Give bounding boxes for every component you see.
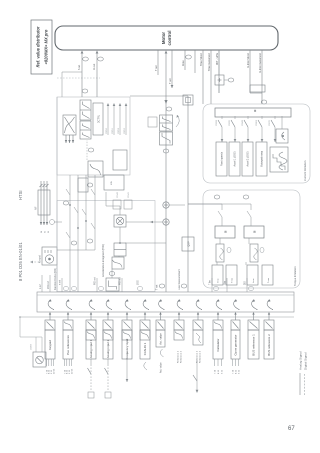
torque glyph box <box>250 244 258 262</box>
selection bar <box>215 108 291 117</box>
svg-text:CAN-IN 1: CAN-IN 1 <box>143 342 147 355</box>
svg-text:Analog input 1: Analog input 1 <box>89 339 93 358</box>
svg-text:Digital Signal: Digital Signal <box>304 352 308 370</box>
ramp block lower <box>88 161 103 177</box>
torque bar <box>215 226 235 238</box>
svg-text:8 21: 8 21 <box>218 369 220 374</box>
svg-text:⊞: ⊞ <box>253 109 257 112</box>
svg-text:DCTRL: DCTRL <box>98 114 101 123</box>
torque bar <box>244 226 264 238</box>
keypad icon <box>42 247 57 265</box>
svg-text:M/T - U/Ta: M/T - U/Ta <box>215 52 219 65</box>
pc wiring <box>106 192 166 278</box>
input block Analog input 1 <box>86 320 96 359</box>
svg-text:Reference 2: Reference 2 <box>180 350 183 363</box>
S-ramp box <box>270 147 288 172</box>
svg-text:PID act: PID act <box>119 277 122 285</box>
svg-text:U-limit Motor: U-limit Motor <box>246 53 250 68</box>
bar line Imax <box>184 50 186 70</box>
svg-text:T act: T act <box>168 78 172 84</box>
svg-text:8 P01 D26 EN-01/01: 8 P01 D26 EN-01/01 <box>18 242 23 281</box>
input block Par. references <box>63 320 73 359</box>
selector arc <box>89 300 94 310</box>
small block above <box>78 178 88 192</box>
svg-text:⊞: ⊞ <box>224 230 228 233</box>
svg-text:PID set: PID set <box>94 277 97 285</box>
svg-text:T lim: T lim <box>210 280 212 285</box>
selector line 235 <box>234 127 236 142</box>
link <box>62 72 82 97</box>
torque wires <box>188 204 222 265</box>
bar line T act <box>171 50 173 88</box>
svg-text:n set: n set <box>59 280 62 285</box>
strip output stubs <box>62 278 247 292</box>
selector line 275 <box>274 127 276 142</box>
svg-text:Frequency input: Frequency input <box>125 338 129 359</box>
input block Analog input 2 <box>103 320 113 359</box>
svg-text:C0053: C0053 <box>124 127 126 134</box>
reference block <box>104 175 124 190</box>
summing points <box>163 202 169 225</box>
svg-text:Reference 1: Reference 1 <box>177 350 180 363</box>
current limitation container <box>203 104 310 183</box>
selector arc <box>66 300 71 310</box>
small summer near bar <box>215 75 224 85</box>
selector arc <box>125 300 130 310</box>
input block Curve generator <box>231 320 240 359</box>
svg-text:10 23: 10 23 <box>53 368 55 374</box>
svg-text:Tmax: Tmax <box>232 278 234 283</box>
svg-text:Analog input 2: Analog input 2 <box>106 339 110 358</box>
input block block 174 <box>174 320 184 340</box>
characteristic block <box>63 115 76 143</box>
svg-text:04: 04 <box>41 231 43 233</box>
input block BUS reference 2 <box>264 320 274 359</box>
AIF pass-through block <box>38 181 50 225</box>
selector arc <box>177 300 182 310</box>
svg-text:Accel 1 (JOG): Accel 1 (JOG) <box>234 151 237 166</box>
dial box <box>276 129 288 143</box>
svg-text:C0275: C0275 <box>269 119 271 126</box>
upper middle wires <box>57 175 95 292</box>
torque limitation container <box>203 190 300 288</box>
svg-text:Time Generator: Time Generator <box>207 53 211 71</box>
svg-text:Reference 2: Reference 2 <box>199 350 202 363</box>
svg-text:9 22: 9 22 <box>221 369 223 374</box>
branches into sums <box>126 205 185 223</box>
svg-text:f out: f out <box>77 65 81 70</box>
motor control bar <box>55 26 278 50</box>
ramp blocks on main line <box>160 115 173 145</box>
selector arc <box>159 300 164 310</box>
dashed pointer above keypad <box>31 261 41 263</box>
svg-text:BUS reference 1: BUS reference 1 <box>252 334 256 356</box>
svg-text:control: control <box>167 31 172 46</box>
acceleration integrator container <box>57 97 130 175</box>
process controller container <box>57 201 155 292</box>
svg-text:Imax: Imax <box>181 60 185 66</box>
svg-text:C0140: C0140 <box>117 191 119 198</box>
svg-text:HTSI: HTSI <box>18 190 23 200</box>
torque pair boxes <box>247 265 258 285</box>
box Motorpoti ramp <box>256 142 267 176</box>
svg-text:DIS: DIS <box>245 281 247 285</box>
svg-text:Act. value: Act. value <box>160 362 163 373</box>
input block Act. value <box>156 320 165 347</box>
svg-text:MIN: MIN <box>111 181 113 185</box>
top boundary line <box>56 97 58 292</box>
svg-text:JOG ref: JOG ref <box>47 281 50 289</box>
selector arc <box>143 300 148 310</box>
svg-text:Imax: Imax <box>218 279 220 283</box>
svg-text:AIF: AIF <box>35 206 38 210</box>
svg-text:C0051: C0051 <box>112 127 114 134</box>
top small circle <box>50 220 55 225</box>
aux box <box>113 150 127 170</box>
svg-text:Tmax: Tmax <box>268 278 270 283</box>
svg-text:Act. value: Act. value <box>159 333 163 345</box>
svg-text:QSP: QSP <box>188 241 191 247</box>
bar line U-limit Motor <box>249 50 251 93</box>
svg-text:C0222: C0222 <box>216 119 218 126</box>
box Fixed speeds <box>216 142 227 176</box>
input block Keypad <box>45 320 55 359</box>
svg-text:Accel 2 (JOG): Accel 2 (JOG) <box>247 151 250 166</box>
extra line below bar <box>194 50 196 73</box>
svg-text:Acceleration integrator (PID): Acceleration integrator (PID) <box>101 244 105 277</box>
input block Calculator <box>213 320 223 359</box>
torque pair boxes <box>212 265 223 285</box>
svg-text:9 22: 9 22 <box>238 369 240 374</box>
svg-text:Torque limitation: Torque limitation <box>293 266 297 286</box>
selector line 262 <box>261 127 263 142</box>
svg-text:BUS reference 2: BUS reference 2 <box>267 334 271 356</box>
selector arc <box>196 300 201 310</box>
svg-text:C0235: C0235 <box>229 119 231 126</box>
torque glyph box <box>216 244 224 262</box>
selector arc <box>48 300 53 310</box>
svg-text:Analog Signal: Analog Signal <box>299 351 303 370</box>
svg-text:Function blocks (DIS): Function blocks (DIS) <box>54 268 57 290</box>
selector line 248 <box>247 127 249 142</box>
input block BUS reference 1 <box>248 320 259 359</box>
svg-text:Ref. value distributor: Ref. value distributor <box>36 26 41 67</box>
selector arc <box>106 300 111 310</box>
input block Frequency input <box>122 320 132 359</box>
input block CAN-IN 1 <box>140 320 150 359</box>
potentiometer icon <box>33 352 46 367</box>
feeder line x136 <box>20 317 294 352</box>
feedback arc <box>176 115 179 127</box>
svg-text:C0262: C0262 <box>256 119 258 126</box>
svg-text:Motorpoti ramp: Motorpoti ramp <box>261 150 264 167</box>
svg-text:⊞: ⊞ <box>253 230 257 233</box>
svg-text:Calculator: Calculator <box>216 338 220 351</box>
three arrows <box>107 103 128 135</box>
multiplier block <box>114 215 126 227</box>
svg-text:Imax: Imax <box>253 279 255 283</box>
svg-text:Keypad: Keypad <box>48 340 52 350</box>
svg-text:7 20: 7 20 <box>232 369 234 374</box>
bar line U-limit Generator <box>261 50 263 104</box>
svg-text:U out: U out <box>92 64 96 70</box>
U out line <box>96 52 98 97</box>
svg-text:Time Motor: Time Motor <box>199 53 203 66</box>
selector arc <box>216 300 221 310</box>
bar line Time Motor <box>202 50 204 104</box>
svg-text:C0050: C0050 <box>106 127 108 134</box>
svg-text:Curve generator: Curve generator <box>234 335 238 356</box>
page number 67 <box>288 426 295 432</box>
bar line M/T - U/Ta <box>218 50 220 93</box>
bar line T set <box>157 50 159 75</box>
svg-text:7 20: 7 20 <box>214 369 216 374</box>
svg-text:C0141: C0141 <box>128 191 130 198</box>
selector line 222 <box>221 127 223 142</box>
svg-text:Par. references: Par. references <box>66 335 70 355</box>
ramp cells <box>80 100 91 139</box>
ref distributor strip <box>37 292 294 312</box>
svg-text:U-limit Generator: U-limit Generator <box>258 53 262 73</box>
legend digital <box>304 373 306 395</box>
svg-text:Motor: Motor <box>161 32 166 44</box>
svg-text:05: 05 <box>45 231 47 233</box>
svg-text:Load measurement: Load measurement <box>178 269 181 290</box>
selector arc <box>267 300 272 310</box>
title box Ref. value distributor <box>31 20 52 74</box>
svg-text:T set: T set <box>154 65 158 71</box>
svg-text:C0052: C0052 <box>118 127 120 134</box>
DCTRL box <box>93 103 103 135</box>
svg-text:«8200MX» MX pro: «8200MX» MX pro <box>44 29 49 64</box>
bar line Time Generator <box>210 50 212 104</box>
vertical dashed divider <box>57 77 100 79</box>
svg-text:Current limitation: Current limitation <box>303 160 307 181</box>
svg-text:Keypad: Keypad <box>40 254 42 263</box>
box on U-limit lines <box>250 85 265 92</box>
box Accel 2 (JOG) <box>242 142 253 176</box>
svg-text:10 23: 10 23 <box>71 368 73 374</box>
svg-text:JOG: JOG <box>138 280 140 285</box>
selector arc <box>234 300 239 310</box>
svg-text:C0248: C0248 <box>242 119 244 126</box>
svg-text:C0469: C0469 <box>31 343 33 350</box>
legend analog <box>299 373 301 395</box>
strip top output stubs <box>41 275 43 292</box>
aux line left <box>196 360 198 391</box>
main line T set <box>165 52 167 292</box>
torque wires <box>188 204 251 265</box>
svg-text:Fixed speeds: Fixed speeds <box>221 151 224 166</box>
svg-text:8 21: 8 21 <box>235 369 237 374</box>
selector arc <box>252 300 257 310</box>
svg-text:T set: T set <box>156 284 159 290</box>
QSP block <box>182 237 194 251</box>
option boxes <box>113 200 121 209</box>
input block block 193 <box>193 320 203 345</box>
box Accel 1 (JOG) <box>229 142 240 176</box>
svg-text:n ref: n ref <box>39 284 42 289</box>
load measurement line <box>187 96 189 292</box>
svg-text:06: 06 <box>48 231 50 233</box>
f out line <box>81 52 83 97</box>
